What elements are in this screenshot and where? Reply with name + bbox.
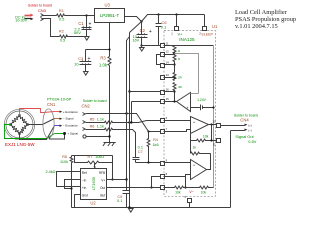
wire pin11 row to internal rail: [164, 45, 214, 47]
pin CN2-3: [83, 128, 86, 131]
SECTION: INA125 U1: [157, 24, 221, 208]
wire red row1: [55, 111, 60, 113]
jumper pin12-pin14: [157, 55, 161, 65]
wire A1 output to pin10: [209, 124, 217, 126]
wire black signal- to cable: [28, 119, 55, 125]
connector CN1 solder cups: [18, 114, 20, 116]
wire green signal+: [5, 125, 55, 139]
wire pin9 to +in: [164, 162, 191, 164]
SECTION: CN2: [82, 99, 161, 162]
svg-text:LP2951-T: LP2951-T: [100, 13, 120, 18]
wire -In left: [65, 180, 81, 189]
op-amp A3 reference buffer (points left): [177, 93, 191, 112]
svg-text:(−): (−): [248, 128, 252, 132]
IC U1 INA125 dashed outline: [164, 31, 216, 197]
svg-text:U3: U3: [105, 3, 111, 8]
svg-text:110k: 110k: [60, 160, 68, 164]
svg-text:0.1: 0.1: [117, 199, 122, 203]
svg-text:10k: 10k: [175, 190, 181, 194]
svg-text:+ Excitation: + Excitation: [63, 110, 78, 114]
SECTION: CN1 load cell: [4, 97, 78, 147]
wire diagonal from U3 node to bus2: [130, 22, 142, 33]
chassis ground (R3/CN2 shield): [103, 143, 116, 146]
pin CN3-2: [41, 18, 44, 21]
node bus2 row 91.9: [128, 90, 130, 92]
wire 1k to A2 output: [207, 154, 211, 170]
svg-text:+: +: [149, 29, 152, 35]
svg-text:1.0k: 1.0k: [99, 63, 108, 68]
node chain/pin16: [173, 90, 175, 92]
svg-text:R3: R3: [100, 55, 106, 60]
ground (C1/R2): [85, 37, 90, 41]
wire U3 output: [125, 17, 142, 22]
svg-text:(+): (+): [248, 123, 252, 127]
wire CN3-1 to R1: [43, 15, 57, 17]
pin 6 square: [161, 119, 165, 123]
svg-text:Gnd: Gnd: [82, 194, 88, 198]
SECTION: top rail caps: [132, 13, 204, 51]
svg-text:SLEEP: SLEEP: [201, 32, 213, 36]
node row4/R3 line: [108, 135, 110, 137]
svg-text:−In: −In: [82, 179, 87, 183]
svg-text:C3: C3: [78, 56, 84, 61]
wire bus2 vertical: [129, 33, 131, 208]
wire bus1 start diagonal: [127, 37, 130, 191]
pin 8 square: [161, 175, 165, 179]
pin 3 square: [161, 186, 165, 190]
wire -in gray feedback: [175, 54, 199, 94]
svg-text:2.4kΩ: 2.4kΩ: [45, 170, 55, 174]
pin 9 fb square: [217, 139, 221, 143]
wire pin7 to -in: [164, 130, 191, 132]
pin 13 square: [161, 76, 165, 80]
pin CN3-1: [41, 14, 44, 17]
SECTION: U2: [45, 155, 160, 208]
SECTION: title block: [235, 9, 296, 30]
SECTION: CN4 out: [221, 114, 258, 208]
load cell bridge bottom-left resistor: [11, 125, 20, 134]
wire black excitation- to cable: [20, 126, 55, 140]
wire pin12 to tap: [164, 54, 175, 56]
pot wiper arrow: [94, 163, 96, 167]
svg-text:1k: 1k: [193, 145, 197, 149]
node chain tap 3 / wire pin13: [173, 76, 175, 78]
svg-text:V−: V−: [189, 190, 194, 194]
wire pin15 stub to row2: [132, 102, 161, 123]
pin 2 SLEEP: [203, 27, 207, 31]
svg-text:PSAS Propulsion group: PSAS Propulsion group: [235, 16, 296, 23]
wire C3 tap: [86, 49, 110, 51]
ground rail bottom: [72, 207, 231, 209]
pin 5 V- square: [188, 199, 192, 203]
svg-text:11: 11: [213, 143, 216, 147]
svg-text:+In: +In: [82, 186, 87, 190]
svg-text:10k: 10k: [201, 190, 207, 194]
arrow row2: [60, 118, 63, 120]
internal resistor chain R top: [173, 46, 176, 54]
ground (C3): [84, 72, 89, 76]
svg-text:INA125: INA125: [179, 37, 195, 42]
svg-text:10kΩ: 10kΩ: [95, 155, 104, 159]
pin CN2-2: [83, 121, 86, 124]
svg-text:LT1635: LT1635: [91, 176, 96, 190]
svg-text:Ref: Ref: [82, 171, 87, 175]
pin 10 square: [217, 124, 221, 128]
wire green row4: [55, 133, 65, 135]
svg-text:v.1.01 2004.7.15: v.1.01 2004.7.15: [235, 23, 278, 30]
wire CN3-2 down: [43, 19, 60, 37]
pin 11 GND square: [161, 44, 165, 48]
pin 15 square: [161, 100, 165, 104]
arrow DC+ (red): [25, 15, 31, 17]
wire pin15 to buffer apex: [164, 101, 177, 103]
wire blue row3: [55, 125, 60, 127]
svg-text:C2: C2: [140, 28, 146, 33]
pin 16 square: [161, 91, 165, 95]
svg-text:10: 10: [74, 62, 79, 67]
wire red excitation+: [20, 109, 55, 116]
load cell bridge left-top resistor: [11, 116, 20, 125]
arrow CN4+: [245, 124, 248, 126]
svg-text:Buf: Buf: [100, 194, 105, 198]
wire pin10 to CN4+: [221, 125, 245, 127]
node C2 ground junction: [140, 44, 142, 46]
svg-text:CN2: CN2: [82, 103, 91, 108]
svg-text:− Signal: − Signal: [63, 117, 74, 121]
arrow DC- (black): [25, 18, 31, 20]
wire bus2 to pin16: [130, 91, 161, 93]
wire row1 to diagonal: [86, 114, 161, 132]
wire pin8 to -in: [164, 175, 191, 177]
svg-text:R6: R6: [90, 125, 95, 129]
pin 9 square (Rg bottom): [161, 162, 165, 166]
node A1 feedback tap: [210, 123, 212, 125]
wire R1 to U3: [65, 15, 95, 17]
svg-text:12: 12: [166, 50, 170, 54]
svg-text:15: 15: [166, 97, 170, 101]
node chain tap 1: [173, 52, 175, 54]
wire Out to INA pin3: [107, 187, 161, 189]
svg-text:0.5: 0.5: [60, 39, 65, 43]
svg-text:13: 13: [166, 73, 170, 77]
wire CN4-: [231, 131, 245, 208]
node U3 output junction: [140, 20, 142, 22]
arrow CN4-: [245, 129, 248, 131]
svg-text:R5: R5: [90, 117, 95, 121]
wire to INA125 V+ pin: [176, 15, 178, 27]
node V+ drop: [175, 13, 177, 15]
node C6 tap: [157, 13, 159, 15]
svg-text:CN3: CN3: [38, 8, 46, 13]
internal vertical rail: [213, 46, 215, 188]
cable shield oval: [43, 109, 54, 138]
svg-text:+ Signal: + Signal: [67, 132, 78, 136]
node C1 top junction: [85, 14, 87, 16]
wire Ref left bracket: [57, 172, 81, 187]
wire row3: [86, 128, 136, 157]
svg-text:Load Cell Amplifier: Load Cell Amplifier: [235, 9, 288, 16]
wire U3 ground pin down: [109, 23, 111, 57]
SECTION: CN3 input: [15, 4, 94, 43]
svg-text:0.5: 0.5: [59, 17, 64, 21]
pin CN2-1: [83, 113, 86, 116]
pin 14 square: [161, 64, 165, 68]
svg-text:V+: V+: [178, 32, 184, 37]
op-amp A1 (top input amp): [191, 117, 209, 134]
pin 12 square: [161, 53, 165, 57]
node rail/bus2: [128, 206, 130, 208]
wire pin9 row: [136, 162, 161, 164]
wire Gnd down: [75, 195, 81, 208]
svg-text:50V: 50V: [74, 30, 81, 35]
wire chain middle: [174, 62, 176, 73]
svg-text:11: 11: [166, 41, 169, 45]
pin CN2-4 shield: [83, 135, 86, 138]
svg-text:RFB: RFB: [99, 171, 105, 175]
internal resistor chain R second: [173, 54, 176, 62]
ground (C2): [140, 46, 145, 52]
svg-text:C1: C1: [78, 21, 84, 26]
svg-text:0-5V: 0-5V: [248, 139, 257, 144]
svg-text:− Excitation: − Excitation: [63, 124, 78, 128]
svg-text:1.1k: 1.1k: [97, 117, 104, 121]
wire U2 out riser to pin8: [152, 177, 161, 188]
svg-text:R8: R8: [62, 155, 67, 159]
wire fb to -in: [190, 130, 192, 141]
svg-text:CN1: CN1: [47, 102, 56, 107]
wire row4 shield: [86, 136, 110, 138]
node shield junction: [63, 132, 66, 135]
ground (rail): [129, 208, 134, 213]
arrow row3: [60, 125, 63, 127]
wire pin8 node down: [185, 177, 187, 188]
load cell bridge right-bottom resistor: [20, 125, 28, 134]
regulator U3 LP2951: [95, 9, 125, 23]
svg-text:10: 10: [212, 120, 216, 124]
svg-text:1.1k: 1.1k: [97, 125, 104, 129]
svg-text:16V: 16V: [132, 38, 139, 42]
svg-text:C7: C7: [138, 150, 143, 154]
wire U2 top rail: [72, 155, 113, 157]
wire pin6 to +in: [164, 120, 191, 122]
wire to INA125 SLEEP pin: [204, 15, 206, 27]
wire junction to top rail: [142, 15, 205, 22]
svg-text:1.24V: 1.24V: [197, 98, 207, 102]
wire V- to ground rail: [189, 203, 191, 208]
wire R2 to ground node: [67, 36, 87, 38]
wire fb down to 1k: [190, 141, 192, 154]
wire chain bottom: [174, 91, 176, 102]
wire row2: [86, 121, 161, 124]
IC U2 LT1635 box: [81, 169, 107, 200]
svg-text:0.1: 0.1: [138, 146, 143, 150]
svg-text:0.1: 0.1: [161, 24, 167, 29]
svg-text:U2: U2: [90, 201, 96, 206]
svg-text:EXJ1 LNG-5W: EXJ1 LNG-5W: [5, 142, 35, 147]
pin 7 square: [161, 130, 165, 134]
internal resistor chain 2R: [173, 73, 176, 81]
svg-text:R4: R4: [153, 138, 158, 142]
wire R3 down to chassis: [109, 66, 111, 143]
load cell bridge top-right resistor: [20, 116, 28, 125]
svg-text:CN4: CN4: [240, 118, 249, 123]
wire shield drain to cable: [50, 134, 65, 140]
pin 1 V+: [175, 27, 179, 31]
internal resistor chain 4R: [173, 83, 176, 91]
svg-text:U1: U1: [212, 24, 218, 29]
wire V+ to bus1: [107, 179, 127, 181]
op-amp A2 (bottom input amp): [191, 160, 207, 180]
node row2/bus2: [128, 121, 130, 123]
svg-text:1k6: 1k6: [152, 143, 158, 147]
svg-text:PT02A-10-6P: PT02A-10-6P: [47, 97, 72, 102]
wire orange row2: [55, 118, 60, 120]
node row1/bus1: [125, 112, 127, 114]
SECTION: buses: [72, 22, 231, 213]
wire feedback down: [211, 125, 213, 141]
svg-text:R1: R1: [59, 8, 64, 13]
node chain tap 2 / wire pin14: [173, 63, 175, 65]
svg-text:R2: R2: [59, 29, 64, 34]
wire C2 junction to INA125 pin 11: [142, 45, 161, 47]
SECTION: regulator U3: [74, 3, 204, 146]
svg-text:RT: RT: [88, 155, 94, 159]
svg-text:Out: Out: [100, 186, 105, 190]
wire bus1 below C5: [126, 194, 128, 208]
arrow row1: [60, 111, 63, 113]
svg-text:10k: 10k: [203, 135, 209, 139]
svg-text:V+: V+: [101, 179, 105, 183]
connector CN1 outer circle: [4, 109, 34, 139]
